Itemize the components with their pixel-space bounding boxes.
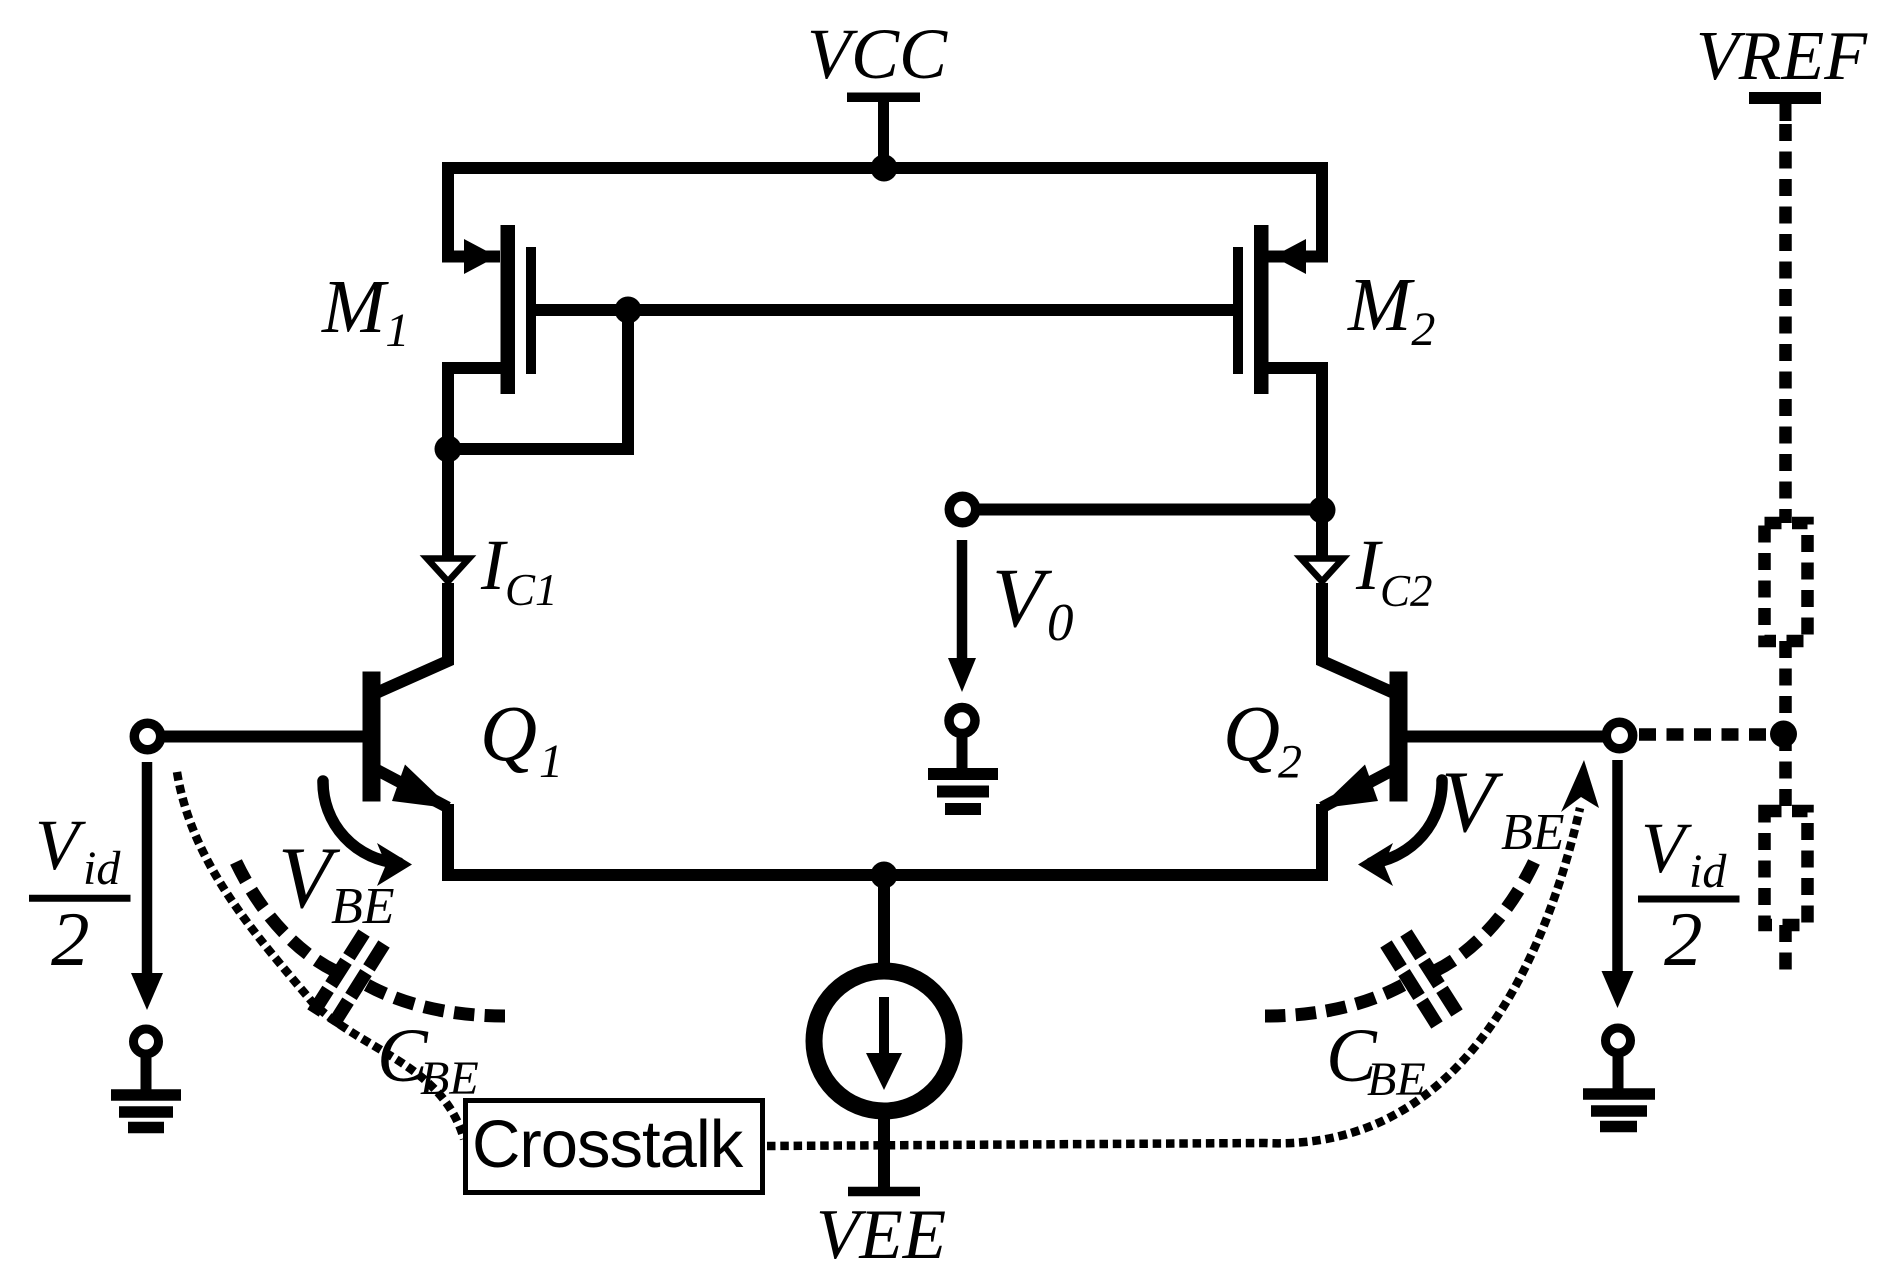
arc VBE arrow Q1 bbox=[323, 781, 412, 886]
ground left input bbox=[111, 1029, 181, 1128]
svg-text:Q: Q bbox=[480, 691, 537, 778]
wire Q2 base lead bbox=[1408, 731, 1606, 743]
node VREF divider dot bbox=[1770, 721, 1797, 748]
wire tail to current source bbox=[878, 875, 890, 964]
capacitor CBE left dashed lead bbox=[236, 862, 505, 1016]
wire crosstalk dotted right bbox=[767, 808, 1580, 1146]
svg-text:V: V bbox=[1641, 808, 1692, 888]
wire IC1 collector branch bbox=[442, 443, 454, 556]
svg-text:C1: C1 bbox=[505, 565, 558, 615]
label VBE left bbox=[278, 830, 395, 935]
terminal Q1 input circle bbox=[134, 723, 160, 749]
wire emitter rail bbox=[442, 869, 1328, 881]
label CBE left bbox=[377, 1014, 479, 1105]
box Crosstalk bbox=[466, 1101, 763, 1193]
wire current source to VEE bbox=[878, 1117, 890, 1192]
wire gate-drain tie bbox=[442, 304, 628, 449]
label CBE right bbox=[1326, 1014, 1426, 1106]
svg-text:BE: BE bbox=[1501, 804, 1565, 861]
svg-text:VREF: VREF bbox=[1696, 18, 1868, 95]
wire V0 output bbox=[979, 504, 1322, 516]
wire crosstalk dotted left bbox=[177, 772, 464, 1139]
node VCC junction dot bbox=[871, 155, 898, 182]
svg-text:V: V bbox=[992, 551, 1053, 645]
ground V0 bbox=[928, 708, 998, 810]
capacitor CBE right dashed lead bbox=[1265, 862, 1534, 1016]
ground right input bbox=[1583, 1028, 1655, 1127]
current arrow IC1 bbox=[427, 559, 469, 582]
svg-text:I: I bbox=[480, 525, 508, 605]
label VBE right bbox=[1441, 754, 1565, 861]
node V0 junction dot bbox=[1309, 497, 1336, 524]
svg-text:C2: C2 bbox=[1380, 566, 1433, 616]
wire M1 source branch bbox=[448, 162, 500, 257]
arrow crosstalk head bbox=[1561, 760, 1599, 812]
svg-text:V: V bbox=[35, 805, 86, 885]
svg-text:BE: BE bbox=[420, 1052, 479, 1105]
svg-text:VEE: VEE bbox=[816, 1196, 946, 1274]
arrow input Vid/2 left bbox=[131, 762, 163, 1010]
label Vid/2 left bbox=[35, 805, 121, 982]
node gate junction dot bbox=[615, 297, 642, 324]
fraction bar Vid/2 left bbox=[29, 895, 131, 902]
svg-text:2: 2 bbox=[1664, 896, 1703, 982]
capacitor CBE left plates bbox=[313, 933, 384, 1025]
svg-text:Crosstalk: Crosstalk bbox=[472, 1107, 744, 1182]
svg-text:2: 2 bbox=[1278, 736, 1302, 789]
resistor R1 dashed bbox=[1765, 523, 1808, 641]
power symbol VEE bbox=[848, 1187, 920, 1197]
svg-text:2: 2 bbox=[51, 896, 90, 982]
wire top supply rail bbox=[442, 162, 1328, 174]
label Vid/2 right bbox=[1641, 808, 1727, 982]
arc VBE arrow Q2 bbox=[1358, 780, 1442, 886]
svg-text:id: id bbox=[1689, 845, 1727, 898]
node M1 drain junction dot bbox=[435, 436, 462, 463]
svg-text:id: id bbox=[83, 842, 121, 895]
svg-text:VCC: VCC bbox=[807, 14, 948, 94]
power symbol VREF bbox=[1749, 98, 1821, 121]
svg-text:BE: BE bbox=[331, 878, 395, 935]
arrow input Vid/2 right bbox=[1602, 760, 1634, 1008]
wire Q1 base lead bbox=[164, 731, 363, 743]
arrow V0 bbox=[948, 540, 976, 692]
svg-text:V: V bbox=[1441, 754, 1504, 851]
transistor Q2 bbox=[1319, 583, 1408, 875]
wire gate net M1-M2 bbox=[536, 304, 1233, 316]
node tail junction dot bbox=[871, 862, 898, 889]
wire IC2 collector branch bbox=[1316, 510, 1328, 556]
wire dashed to VREF node bbox=[1639, 728, 1770, 741]
transistor M2 bbox=[1233, 162, 1322, 516]
power symbol VCC bbox=[847, 97, 920, 168]
wire M1 drain vertical bbox=[442, 362, 454, 455]
transistor Q1 bbox=[363, 583, 452, 875]
terminal V0 circle bbox=[949, 496, 975, 522]
current source IEE bbox=[814, 971, 954, 1111]
svg-text:I: I bbox=[1355, 525, 1383, 605]
fraction bar Vid/2 right bbox=[1638, 896, 1740, 903]
svg-text:Q: Q bbox=[1223, 691, 1280, 778]
wire VREF dashed chain bbox=[1779, 124, 1792, 975]
svg-text:1: 1 bbox=[539, 735, 563, 788]
resistor R2 dashed bbox=[1765, 811, 1808, 925]
svg-text:BE: BE bbox=[1367, 1053, 1426, 1106]
transistor M1 bbox=[448, 225, 536, 394]
capacitor CBE right plates bbox=[1386, 933, 1457, 1025]
terminal Q2 input circle bbox=[1606, 722, 1632, 748]
current arrow IC2 bbox=[1301, 559, 1343, 582]
svg-text:0: 0 bbox=[1047, 594, 1074, 652]
